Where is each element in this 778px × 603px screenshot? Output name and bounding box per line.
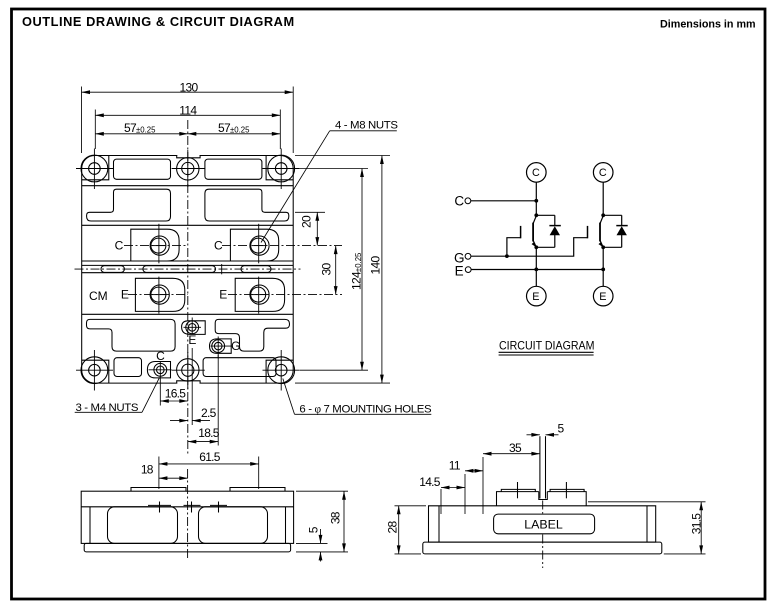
raised centre block — [497, 492, 587, 506]
nut tab left — [501, 489, 535, 491]
circuit letters — [454, 167, 607, 303]
svg-text:3 - M4 NUTS: 3 - M4 NUTS — [76, 402, 139, 414]
svg-text:OUTLINE DRAWING & CIRCUIT DIAG: OUTLINE DRAWING & CIRCUIT DIAGRAM — [22, 14, 295, 29]
dim line 31.5 — [700, 502, 702, 554]
crosshair top-left hole — [76, 168, 113, 170]
aux E terminal block — [182, 321, 206, 335]
ext line 140 bottom — [295, 382, 390, 384]
svg-text:38: 38 — [328, 511, 342, 524]
igbt Q2 — [588, 216, 604, 248]
crosshair top-right hole — [263, 168, 300, 170]
dim line 16.5 — [160, 400, 188, 402]
mounting boss circle bottom-right — [268, 357, 295, 384]
node dot Q1 collector/diode — [534, 213, 538, 217]
top lip tab left — [131, 488, 186, 492]
mounting hole bottom-centre — [182, 364, 194, 376]
case split line — [81, 506, 293, 508]
E terminal block right — [235, 278, 284, 311]
crosshair aux C — [149, 369, 172, 371]
mounting boss circle bottom-left — [81, 357, 108, 384]
dim line 130 — [82, 91, 294, 93]
node dot Q2 emitter/diode — [601, 245, 605, 249]
dim line 124 — [361, 169, 363, 371]
Q1 gate bar — [520, 226, 522, 238]
wire G bus — [471, 238, 588, 257]
bottom pad small left — [114, 358, 142, 377]
svg-text:11: 11 — [449, 458, 461, 472]
svg-text:61.5: 61.5 — [199, 450, 221, 464]
top raised pad right — [205, 159, 262, 179]
E terminal screw right — [250, 285, 269, 304]
diode D2 — [603, 215, 628, 247]
node dot Q2 collector/diode — [601, 213, 605, 217]
C screw left vertical centreline — [158, 224, 160, 263]
ext line 5 top — [296, 542, 328, 544]
pin notch — [539, 492, 548, 500]
crosshair centre marks (solid thin) — [76, 149, 300, 391]
C terminal screw right — [250, 236, 269, 255]
svg-text:18: 18 — [141, 462, 154, 476]
svg-text:E: E — [455, 263, 464, 278]
svg-text:C: C — [115, 239, 124, 253]
wire Q2 collector stub — [602, 182, 604, 215]
caption double underline — [499, 352, 594, 355]
centre dash line of end view — [542, 501, 544, 569]
dim line 14.5 — [441, 487, 465, 489]
ext line 124 top — [300, 168, 368, 170]
corner ear pocket top-right — [266, 156, 293, 180]
D1 triangle — [550, 226, 560, 235]
corner ear pocket bottom-left — [82, 360, 109, 383]
D1 cathode bar — [549, 225, 560, 227]
D2 top link wire — [603, 214, 622, 216]
mounting hole top-centre — [182, 162, 194, 174]
D2 triangle — [617, 226, 627, 235]
groove slot A — [101, 266, 124, 273]
screw axis tick left — [517, 482, 519, 498]
svg-text:140: 140 — [369, 256, 383, 275]
node dot E bus / Q2 — [601, 268, 605, 272]
terminal tick C/E column — [159, 502, 161, 513]
ext line 130 right — [292, 87, 294, 154]
ext line aux C column — [159, 383, 161, 406]
dim line 18 — [159, 477, 188, 479]
aux E screw — [186, 321, 199, 334]
ext line 38 top — [296, 490, 348, 492]
end body outline — [429, 506, 656, 542]
svg-text:5: 5 — [558, 421, 565, 435]
crosshair bottom-centre hole — [172, 369, 205, 371]
horizontal groove centre line — [75, 268, 301, 270]
inner wall right — [646, 506, 648, 542]
svg-text:E: E — [599, 291, 606, 303]
svg-text:18.5: 18.5 — [198, 426, 220, 440]
groove bottom line — [82, 272, 294, 274]
dim line 18.5 — [188, 441, 218, 443]
igbt Q1 — [507, 216, 536, 256]
ext line aux E column — [191, 348, 193, 425]
svg-text:E: E — [188, 333, 196, 347]
dim line 11 — [465, 470, 483, 472]
terminal tick G column — [218, 502, 220, 513]
E terminal screw left — [150, 285, 169, 304]
centre dash line of side view — [187, 469, 189, 560]
svg-text:5: 5 — [306, 526, 320, 533]
leader 6-phi7 underline — [295, 413, 432, 415]
groove slot C — [241, 266, 271, 273]
baseplate — [84, 543, 290, 552]
inner wall right — [285, 507, 287, 544]
D2 cathode bar — [616, 225, 627, 227]
E screw left vertical centreline — [158, 277, 160, 314]
input terminal circle C — [465, 198, 471, 204]
svg-text:4 - M8 NUTS: 4 - M8 NUTS — [335, 120, 398, 132]
svg-text:28: 28 — [386, 521, 400, 534]
mounting hole top-left — [89, 163, 101, 175]
ext line bottom shared — [296, 551, 348, 553]
aux C terminal block — [147, 362, 170, 378]
terminal circle C1 — [527, 163, 547, 183]
ext line 31.5 bottom — [664, 553, 706, 555]
case block left — [108, 507, 178, 544]
diode D1 — [536, 215, 561, 247]
svg-text:30: 30 — [320, 263, 334, 276]
svg-text:Dimensions in mm: Dimensions in mm — [660, 19, 756, 31]
node dot C1 top — [534, 199, 538, 203]
bottom pad long right — [203, 358, 276, 377]
aux G terminal block — [210, 339, 232, 353]
terminal letters on top view — [89, 239, 240, 364]
ext line x483 — [482, 457, 484, 514]
svg-text:C: C — [532, 167, 540, 179]
inner wall left — [89, 507, 91, 544]
lower L-shaped pad left — [87, 319, 176, 351]
leader 4-M8 NUTS diagonal — [261, 131, 330, 243]
dim line 61.5 — [159, 463, 259, 465]
dash-dot construction lines — [75, 120, 343, 455]
Q2 emitter lead — [600, 241, 603, 248]
svg-text:CIRCUIT DIAGRAM: CIRCUIT DIAGRAM — [499, 338, 595, 352]
svg-text:E: E — [121, 288, 129, 302]
svg-text:C: C — [214, 239, 223, 253]
mounting boss circle top-left — [81, 155, 108, 182]
case block right — [199, 507, 268, 544]
dim line 57 left — [95, 133, 188, 135]
Q2 gate lead (stub from bus elbow) — [587, 237, 589, 239]
node dot G junction — [505, 254, 509, 258]
lower L-shaped pad right — [215, 319, 289, 351]
svg-text:2.5: 2.5 — [201, 406, 217, 420]
bottom edge recess at centre boss — [177, 382, 199, 385]
terminal circle E2 — [593, 286, 613, 306]
wire Q1 emitter column — [535, 247, 537, 286]
groove slot tick — [221, 264, 223, 274]
svg-text:14.5: 14.5 — [419, 475, 441, 489]
inner wall left — [438, 506, 440, 542]
wire E bus — [471, 269, 603, 271]
leader 3-M4 NUTS diagonal — [142, 378, 160, 413]
band line below C row — [82, 260, 294, 262]
svg-text:6 - φ 7 MOUNTING HOLES: 6 - φ 7 MOUNTING HOLES — [299, 403, 432, 415]
input terminal circle G — [465, 253, 471, 259]
ext line 140 top — [295, 155, 390, 157]
ext line 61.5 left — [158, 457, 160, 490]
terminal tick E column — [191, 502, 193, 513]
leader 6-phi7 diagonal — [283, 379, 295, 415]
ext line 124 bottom — [300, 369, 368, 371]
svg-text:LABEL: LABEL — [524, 518, 563, 532]
Q1 body bar — [532, 223, 534, 242]
aux C screw — [154, 363, 167, 376]
terminal circle C2 — [593, 163, 613, 183]
C screw left crosshair — [124, 245, 186, 247]
crosshair bottom-left hole — [76, 369, 113, 371]
D1 anode wire — [554, 235, 556, 247]
screw axis tick right — [565, 482, 567, 498]
main terminal pin — [539, 436, 541, 498]
band line above C row — [82, 224, 294, 226]
crosshair aux E — [184, 326, 202, 328]
svg-text:C: C — [156, 349, 165, 363]
D1 top link wire — [536, 214, 555, 216]
C screw right vertical centreline — [258, 224, 260, 263]
dim line 38 — [343, 491, 345, 552]
top view dimension texts — [76, 81, 432, 440]
label plate — [494, 514, 595, 534]
ext line x441 — [440, 489, 442, 514]
wire Q2 emitter column — [602, 247, 604, 286]
crosshair bottom-right hole — [263, 369, 300, 371]
dim line 114 — [95, 114, 280, 116]
top lip tab right — [230, 488, 285, 492]
Q1 collector lead — [533, 216, 536, 224]
ext line aux G column — [217, 355, 219, 446]
baseplate — [423, 542, 662, 554]
svg-text:114: 114 — [179, 103, 197, 117]
corner ear pocket top-left — [82, 156, 109, 180]
terminal slot marks — [148, 504, 171, 506]
mounting hole bottom-right — [275, 364, 287, 376]
side body outline — [81, 491, 293, 543]
C terminal screw left — [150, 236, 169, 255]
svg-text:35: 35 — [509, 441, 522, 455]
C terminal block left — [131, 229, 179, 261]
top edge recess at centre boss — [177, 154, 199, 157]
node dot Q1 emitter/diode — [534, 245, 538, 249]
crosshair aux G — [211, 345, 233, 347]
Q1 emitter arrow — [532, 242, 537, 247]
vertical centre line of module — [187, 120, 189, 455]
dim line 57 right — [188, 133, 280, 135]
ext line 114 right — [279, 110, 281, 150]
terminal circle E1 — [527, 286, 547, 306]
dim line 30 — [335, 246, 337, 295]
ext line 28 bottom — [395, 553, 422, 555]
svg-text:130: 130 — [180, 81, 199, 95]
ext line 20 (pad edge) — [295, 211, 325, 213]
svg-text:E: E — [219, 288, 227, 302]
mounting hole bottom-left — [89, 364, 101, 376]
svg-text:16.5: 16.5 — [165, 387, 187, 401]
aux G screw — [212, 340, 225, 353]
mounting boss circle bottom-centre — [177, 359, 199, 381]
corner ear pocket bottom-right — [266, 360, 293, 383]
dim line 35 — [483, 453, 540, 455]
dim line 5 pin (arrows outside) — [527, 434, 540, 436]
band line under top row — [82, 185, 294, 187]
wire Q1 collector stub — [535, 182, 537, 215]
D2 bottom link wire — [603, 246, 622, 248]
groove slot B — [143, 266, 216, 273]
ext line 61.5 right — [258, 457, 260, 490]
groove top line — [82, 264, 294, 266]
nut tab right — [550, 489, 584, 491]
module body outline — [82, 156, 294, 384]
E screw left crosshair — [128, 294, 188, 296]
leader 4-M8 NUTS underline — [330, 130, 397, 132]
svg-text:31.5: 31.5 — [689, 513, 703, 535]
svg-text:G: G — [231, 339, 240, 353]
Q2 body bar — [599, 223, 601, 242]
C terminal block right — [230, 229, 278, 261]
Q1 gate lead — [507, 238, 521, 256]
E terminal block left — [135, 278, 184, 311]
ext line 114 left — [94, 110, 96, 150]
Q1 emitter lead — [533, 241, 536, 248]
crosshair top-centre hole — [172, 168, 205, 170]
D1 cathode wire — [554, 215, 556, 225]
Q2 emitter arrow — [599, 242, 604, 247]
mounting boss circle top-centre — [177, 158, 199, 180]
dim line 2.5 arrows outside — [170, 420, 188, 422]
mounting hole top-right — [275, 163, 287, 175]
ext line x465 — [464, 474, 466, 514]
mounting boss circle top-right — [268, 155, 295, 182]
E screw right crosshair (extends right to 30 dim) — [228, 294, 342, 296]
top raised pad left — [114, 159, 171, 179]
svg-text:E: E — [532, 291, 539, 303]
dim line 20 — [316, 212, 318, 245]
ext line 28 top — [395, 505, 427, 507]
ext line 31.5 top — [588, 501, 706, 503]
dim line 140 — [381, 156, 383, 384]
svg-text:C: C — [599, 167, 607, 179]
dim line 5 (arrows outside) — [320, 529, 322, 543]
band line below E row — [82, 313, 294, 315]
svg-text:20: 20 — [300, 215, 314, 228]
svg-text:C: C — [454, 193, 464, 208]
wire C input bus — [471, 200, 537, 202]
D2 cathode wire — [621, 215, 623, 225]
Q2 gate bar — [587, 226, 589, 238]
upper L-shaped pad right — [205, 189, 289, 221]
leader 3-M4 NUTS underline — [75, 411, 142, 413]
C screw right crosshair (extends right to 20/30 dims) — [222, 245, 342, 247]
Q2 collector lead — [600, 216, 603, 224]
node dot E bus / Q1 — [534, 268, 538, 272]
ext line 130 left — [81, 87, 83, 154]
dim line 28 — [398, 506, 400, 554]
D1 bottom link wire — [536, 246, 555, 248]
svg-text:CM: CM — [89, 289, 108, 303]
upper L-shaped pad left — [87, 189, 171, 221]
input terminal circle E — [465, 267, 471, 273]
E screw right vertical centreline — [258, 277, 260, 314]
D2 anode wire — [621, 235, 623, 247]
